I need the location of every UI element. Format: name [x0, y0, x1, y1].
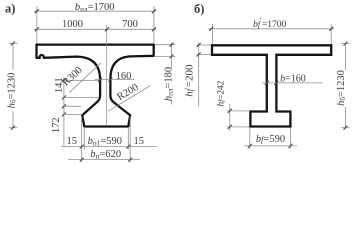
- dimension line 15|590|15: [61, 146, 157, 148]
- svg-text:bп1=590: bп1=590: [88, 136, 122, 147]
- svg-text:hf=242: hf=242: [217, 80, 227, 106]
- svg-text:172: 172: [51, 117, 62, 133]
- svg-text:б): б): [194, 2, 204, 16]
- dimension line bf=590: [244, 145, 297, 147]
- bottom extension lines 620: [81, 116, 83, 163]
- svg-text:b=160: b=160: [280, 74, 306, 85]
- extension lines h'f=200: [197, 44, 212, 46]
- extension lines top flange (right figure): [212, 24, 214, 44]
- svg-text:160: 160: [116, 71, 132, 82]
- bottom extension lines 590: [83, 127, 85, 150]
- right flange-height dimension hpl=180 : extension lines: [155, 44, 176, 46]
- vertical dimension line 141/172: [63, 78, 65, 147]
- R200 leader line: [108, 86, 151, 112]
- svg-text:700: 700: [122, 19, 138, 30]
- svg-text:bп=620: bп=620: [90, 149, 121, 160]
- left height dimension hb=1230: [12, 43, 14, 70]
- svg-text:1000: 1000: [62, 19, 83, 30]
- dimension line hpl=180: [171, 43, 173, 69]
- centerline of web: [106, 25, 108, 127]
- svg-text:hпл=180: hпл=180: [164, 67, 175, 101]
- dimension line bp=620: [68, 159, 140, 161]
- dimension line hf=242: [229, 104, 231, 131]
- beam outline (right figure): [212, 45, 331, 126]
- dimension line h'f=200: [198, 43, 200, 107]
- dimension line 1000 / 700: [34, 28, 156, 30]
- dimension line b'f=1700: [209, 28, 335, 30]
- svg-text:15: 15: [67, 136, 78, 147]
- leader line b=160: [262, 82, 323, 84]
- beam outline (left figure): [37, 45, 154, 127]
- svg-text:15: 15: [134, 136, 145, 147]
- extension line right flange top: [153, 6, 155, 44]
- svg-text:bf=590: bf=590: [256, 134, 285, 145]
- extension lines to web: [64, 80, 99, 82]
- web width dimension 160: [95, 79, 135, 81]
- svg-text:hf′=200: hf′=200: [182, 64, 195, 97]
- svg-text:а): а): [5, 2, 15, 16]
- dimension line bpl=1700: [34, 10, 156, 12]
- extension lines hf=242: [227, 110, 250, 112]
- extension lines bf=590: [249, 128, 251, 150]
- right height dimension hb=1230 (right figure): [345, 44, 347, 71]
- R300 leader line: [69, 63, 101, 93]
- extension line left flange top: [36, 6, 38, 44]
